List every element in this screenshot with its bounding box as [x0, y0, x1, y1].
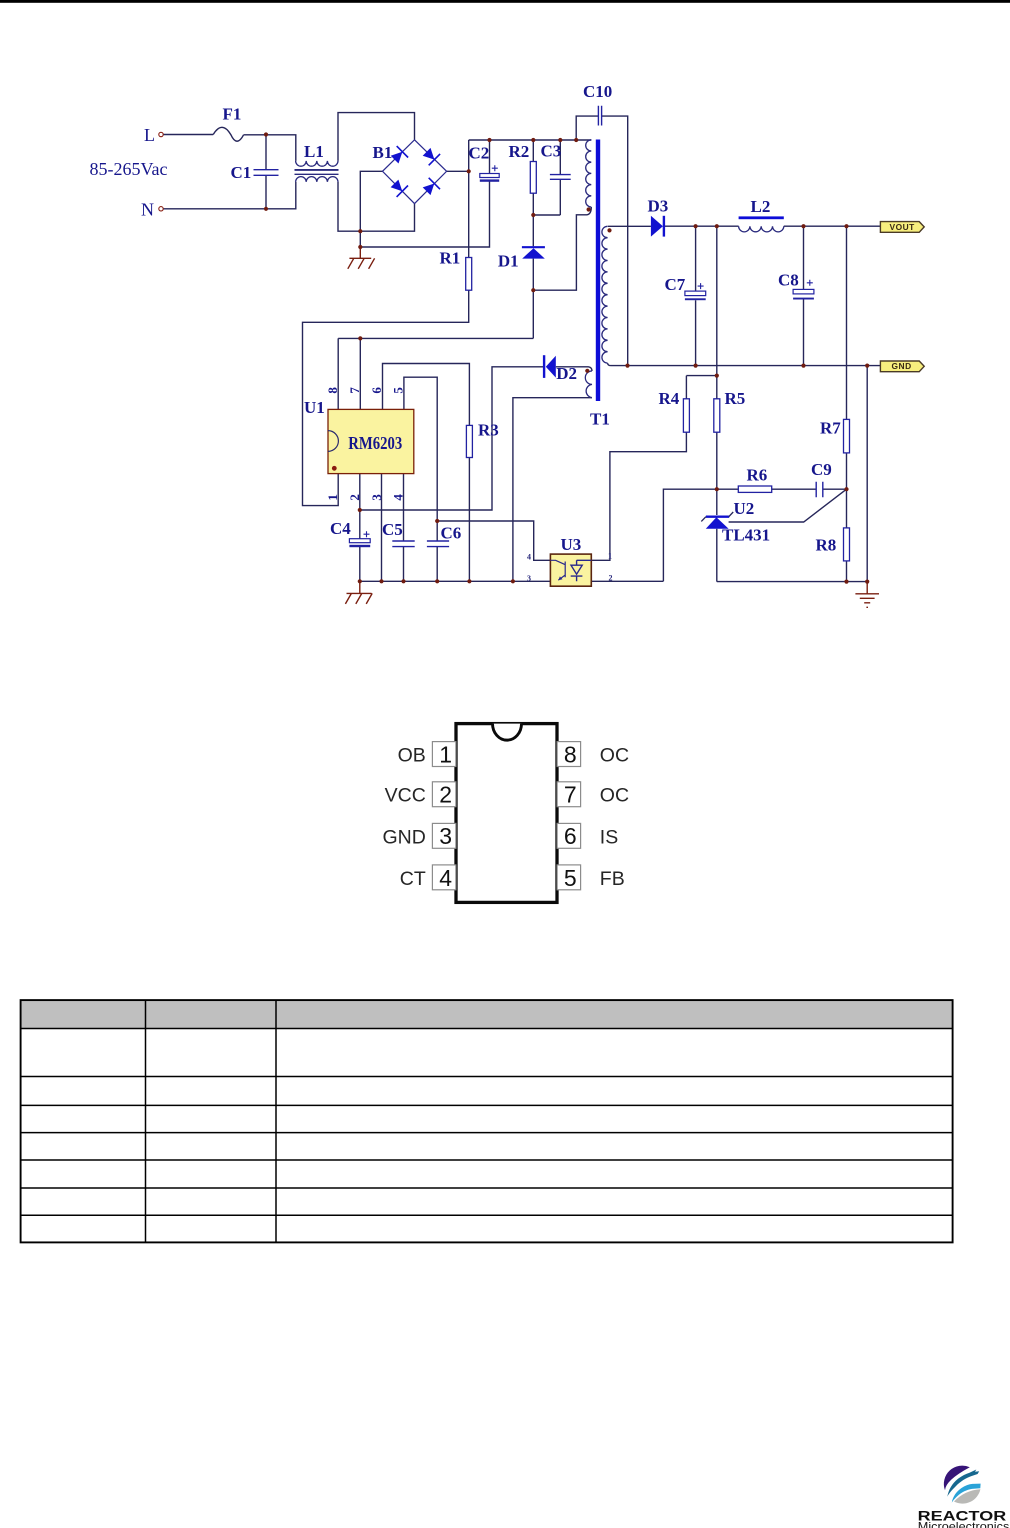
svg-text:D3: D3 — [648, 197, 669, 216]
svg-text:C9: C9 — [811, 460, 832, 479]
svg-text:VCC: VCC — [385, 785, 426, 807]
svg-text:TL431: TL431 — [722, 526, 770, 545]
svg-text:C2: C2 — [469, 144, 490, 163]
svg-text:L: L — [144, 125, 155, 145]
svg-text:7: 7 — [347, 387, 362, 394]
svg-text:4: 4 — [439, 865, 452, 891]
svg-text:N: N — [141, 200, 154, 220]
svg-text:GND: GND — [382, 826, 425, 848]
svg-text:2: 2 — [439, 782, 452, 808]
svg-text:R1: R1 — [440, 249, 461, 268]
svg-text:R4: R4 — [659, 389, 680, 408]
svg-text:7: 7 — [564, 782, 577, 808]
svg-text:1: 1 — [325, 494, 340, 501]
svg-text:OB: OB — [398, 745, 426, 767]
svg-text:C5: C5 — [382, 520, 403, 539]
svg-text:U1: U1 — [304, 398, 325, 417]
svg-text:F1: F1 — [223, 105, 242, 124]
svg-text:1: 1 — [608, 552, 612, 561]
svg-text:C4: C4 — [330, 519, 351, 538]
svg-text:1: 1 — [439, 741, 452, 767]
svg-text:C7: C7 — [665, 275, 686, 294]
svg-text:D2: D2 — [556, 364, 577, 383]
svg-text:4: 4 — [391, 494, 406, 501]
svg-text:VOUT: VOUT — [890, 222, 916, 232]
svg-text:6: 6 — [369, 387, 384, 394]
svg-text:Microelectronics: Microelectronics — [918, 1520, 1010, 1528]
svg-text:4: 4 — [527, 553, 531, 562]
svg-text:U3: U3 — [561, 535, 582, 554]
svg-text:FB: FB — [600, 868, 625, 890]
svg-text:C10: C10 — [583, 82, 612, 101]
svg-text:2: 2 — [347, 494, 362, 501]
svg-text:C1: C1 — [231, 163, 252, 182]
svg-text:R5: R5 — [725, 389, 746, 408]
svg-text:3: 3 — [369, 494, 384, 501]
svg-text:D1: D1 — [498, 252, 519, 271]
svg-text:R8: R8 — [816, 536, 837, 555]
svg-text:B1: B1 — [373, 143, 393, 162]
svg-text:GND: GND — [892, 361, 912, 371]
svg-text:IS: IS — [600, 826, 618, 848]
svg-text:U2: U2 — [734, 499, 755, 518]
svg-text:85-265Vac: 85-265Vac — [90, 159, 168, 179]
svg-text:3: 3 — [439, 823, 452, 849]
svg-text:8: 8 — [564, 741, 577, 767]
svg-text:C6: C6 — [441, 524, 462, 543]
svg-text:C3: C3 — [541, 142, 562, 161]
svg-text:2: 2 — [609, 574, 613, 583]
svg-text:5: 5 — [564, 865, 577, 891]
svg-text:3: 3 — [527, 574, 531, 583]
svg-text:6: 6 — [564, 823, 577, 849]
svg-text:C8: C8 — [778, 271, 799, 290]
svg-text:8: 8 — [325, 387, 340, 394]
svg-text:R2: R2 — [509, 142, 530, 161]
svg-text:5: 5 — [391, 387, 406, 394]
svg-text:R7: R7 — [820, 419, 841, 438]
svg-text:R3: R3 — [478, 421, 499, 440]
svg-text:CT: CT — [400, 868, 426, 890]
svg-text:L1: L1 — [304, 142, 324, 161]
svg-text:T1: T1 — [590, 410, 610, 429]
svg-text:OC: OC — [600, 745, 629, 767]
svg-text:OC: OC — [600, 785, 629, 807]
svg-text:RM6203: RM6203 — [348, 433, 402, 453]
svg-text:R6: R6 — [747, 466, 768, 485]
svg-text:L2: L2 — [751, 197, 771, 216]
